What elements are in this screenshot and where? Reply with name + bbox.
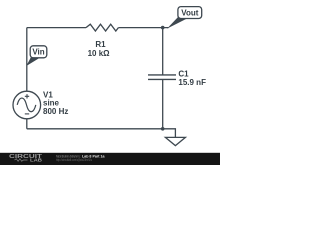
svg-text:15.9 nF: 15.9 nF xyxy=(178,78,206,87)
svg-text:LAB: LAB xyxy=(30,157,42,162)
svg-text:Vin: Vin xyxy=(32,48,44,57)
svg-text:800 Hz: 800 Hz xyxy=(43,107,68,116)
svg-text:R1: R1 xyxy=(95,40,106,49)
svg-text:http://circuitlab.com/c/jhdc23: http://circuitlab.com/c/jhdc23hv92u xyxy=(56,158,92,162)
svg-text:Vout: Vout xyxy=(181,9,199,18)
svg-text:10 kΩ: 10 kΩ xyxy=(88,49,111,58)
